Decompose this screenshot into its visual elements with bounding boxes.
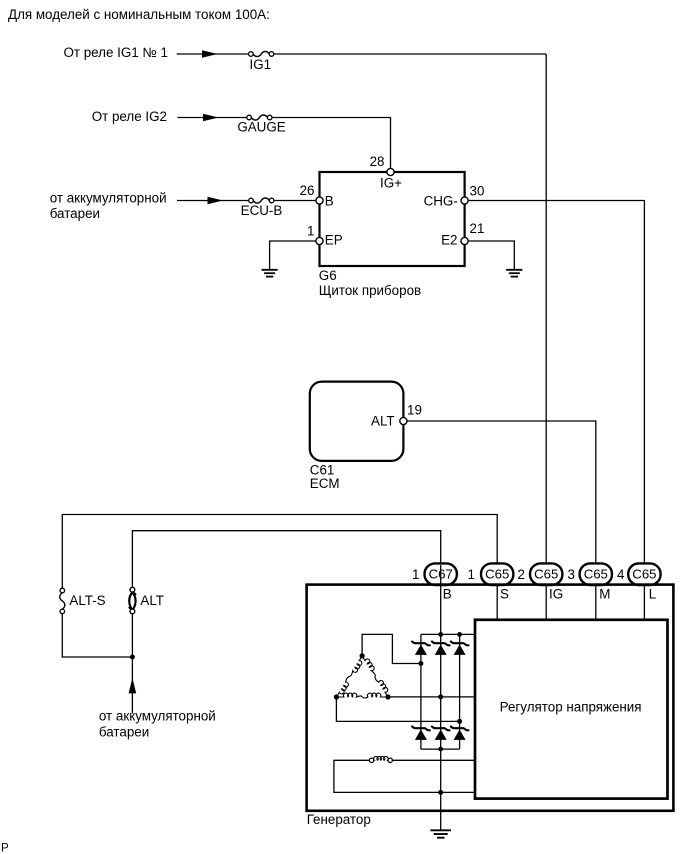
diode D1 (top row)	[412, 642, 430, 646]
wire: generator case to ground	[440, 811, 442, 830]
junction dot phase3-stator	[457, 719, 462, 724]
svg-text:B: B	[443, 587, 452, 602]
svg-text:IG1: IG1	[250, 57, 272, 72]
wire: relay IG2 feed to fuse GAUGE	[177, 117, 247, 119]
svg-text:L: L	[649, 587, 656, 602]
ground at E2	[506, 269, 522, 271]
stator winding right coil	[362, 656, 388, 697]
stator node bottom-right	[385, 694, 390, 699]
wire: fuse GAUGE to IG+ corner	[272, 118, 391, 171]
wire: rotor right lead	[393, 759, 476, 761]
svg-text:B: B	[325, 194, 334, 209]
wire: fuse IG1 to IG net corner	[274, 53, 546, 55]
svg-text:Щиток приборов: Щиток приборов	[319, 283, 421, 298]
svg-text:26: 26	[300, 183, 315, 198]
fuse ECU-B	[253, 198, 269, 203]
svg-text:IG+: IG+	[380, 176, 402, 191]
svg-text:4: 4	[617, 567, 625, 582]
wire: battery feed up-arrow	[131, 657, 133, 713]
svg-text:батареи: батареи	[50, 206, 100, 221]
wire: ALT fuse to B net	[132, 531, 440, 588]
svg-text:1: 1	[468, 567, 475, 582]
svg-text:Регулятор напряжения: Регулятор напряжения	[500, 700, 642, 715]
wire: fuse ECU-B to pin B	[274, 200, 320, 202]
svg-text:1: 1	[412, 567, 419, 582]
svg-text:21: 21	[470, 221, 485, 236]
svg-text:C65: C65	[534, 567, 558, 582]
stator left vertex wire to phase3	[336, 697, 459, 721]
stator right vertex wire to regulator	[388, 696, 475, 698]
wire: IG stub into regulator	[545, 565, 547, 620]
ground below generator	[430, 830, 451, 837]
pin CHG- terminal circle	[461, 197, 468, 204]
svg-text:P: P	[1, 843, 9, 854]
svg-text:G6: G6	[319, 268, 337, 283]
junction dot rail-B	[438, 632, 443, 637]
phase 3 vertical	[459, 634, 461, 749]
stator winding bottom coil	[336, 693, 388, 698]
phase 1 vertical	[420, 634, 422, 749]
svg-text:E2: E2	[441, 232, 457, 247]
svg-text:от аккумуляторной: от аккумуляторной	[99, 709, 216, 724]
svg-text:GAUGE: GAUGE	[237, 120, 285, 135]
svg-text:1: 1	[307, 224, 314, 239]
svg-text:От реле IG2: От реле IG2	[92, 109, 167, 124]
pin EP terminal circle	[316, 237, 323, 244]
stator node top	[360, 653, 365, 658]
connector oval C65 pin 3	[580, 563, 612, 585]
wire: ALT-S fuse bottom to junction	[62, 614, 132, 657]
svg-text:Генератор: Генератор	[307, 812, 371, 827]
pin ALT terminal circle	[400, 417, 407, 424]
diode D2 (top row)	[432, 642, 450, 646]
svg-text:EP: EP	[325, 233, 343, 248]
junction dot battery node	[130, 655, 135, 660]
wire: relay IG1 feed to fuse IG1	[177, 53, 249, 55]
rotor field coil	[369, 758, 373, 762]
wire: B line through generator	[440, 565, 442, 811]
diode D3 (top row)	[451, 642, 469, 646]
arrow on IG1 wire	[202, 50, 218, 58]
arrow on GAUGE wire	[203, 114, 219, 122]
wire: rotor left lead	[334, 760, 475, 792]
fuse IG1	[253, 51, 269, 56]
wire: IG net vertical to connector C65 pin 2	[545, 54, 547, 565]
junction dot phase2-stator	[438, 694, 443, 699]
svg-text:ALT: ALT	[371, 413, 395, 428]
generator box	[307, 585, 674, 811]
fuse ALT-S	[60, 588, 65, 593]
svg-text:ALT-S: ALT-S	[69, 593, 105, 608]
svg-text:30: 30	[470, 184, 485, 199]
stator winding left coil	[336, 656, 362, 697]
wire: EP to ground	[270, 241, 320, 269]
arrow on battery feed	[129, 678, 137, 694]
wire: L stub into regulator	[643, 565, 645, 620]
junction dot bottom rail-B	[438, 747, 443, 752]
svg-text:C65: C65	[632, 567, 656, 582]
svg-text:3: 3	[568, 567, 575, 582]
svg-text:ECU-B: ECU-B	[241, 203, 283, 218]
connector oval C65 pin 2	[530, 563, 562, 585]
combination meter G6 box	[320, 172, 465, 266]
svg-text:батареи: батареи	[99, 725, 149, 740]
svg-text:IG: IG	[549, 587, 563, 602]
connector oval C65 pin 4	[628, 563, 660, 585]
wire: M stub into regulator	[595, 565, 597, 620]
wire: ALT fuse bottom to junction	[131, 614, 133, 657]
svg-text:S: S	[500, 587, 509, 602]
svg-text:28: 28	[370, 154, 385, 169]
svg-text:От реле IG1 № 1: От реле IG1 № 1	[63, 45, 168, 60]
ground at EP	[262, 269, 278, 271]
fuse GAUGE	[251, 115, 267, 120]
arrow on ECU-B wire	[208, 197, 224, 205]
svg-text:2: 2	[518, 567, 525, 582]
wire: ALT to M net	[403, 421, 595, 565]
svg-text:CHG-: CHG-	[424, 194, 458, 209]
junction dot phase1-stator	[418, 661, 423, 666]
junction dot field-ground	[438, 790, 443, 795]
svg-text:C65: C65	[584, 567, 608, 582]
svg-text:C65: C65	[485, 567, 509, 582]
svg-text:M: M	[599, 587, 610, 602]
wire: ALT-S fuse to S net	[62, 515, 497, 589]
wire: S stub into regulator	[496, 565, 498, 620]
diode D6 (bottom row)	[451, 727, 469, 731]
pin B terminal circle	[316, 197, 323, 204]
rectifier top rail to regulator	[421, 633, 475, 635]
diode D5 (bottom row)	[432, 727, 450, 731]
junction dot rail-phase3	[457, 632, 462, 637]
wire: E2 to ground	[465, 241, 515, 269]
stator node bottom-left	[334, 694, 339, 699]
ECM C61 box	[310, 382, 404, 461]
fusible link ALT	[130, 587, 135, 592]
svg-text:ECM: ECM	[310, 476, 340, 491]
pin IG+ terminal circle	[387, 168, 394, 175]
stator top vertex wire to phase1	[362, 634, 421, 663]
pin E2 terminal circle	[461, 237, 468, 244]
wire: battery feed to fuse ECU-B	[177, 200, 249, 202]
svg-text:Для моделей с номинальным токо: Для моделей с номинальным током 100А:	[8, 7, 270, 22]
diode D4 (bottom row)	[412, 727, 430, 731]
connector oval C65 pin 1	[481, 563, 513, 585]
svg-text:19: 19	[407, 403, 422, 418]
wire: CHG- to L net	[465, 201, 645, 566]
connector oval C67 pin 1	[425, 563, 457, 585]
rectifier bottom rail	[421, 748, 460, 750]
svg-text:от аккумуляторной: от аккумуляторной	[50, 191, 167, 206]
svg-text:ALT: ALT	[140, 593, 164, 608]
voltage regulator box	[475, 620, 668, 799]
